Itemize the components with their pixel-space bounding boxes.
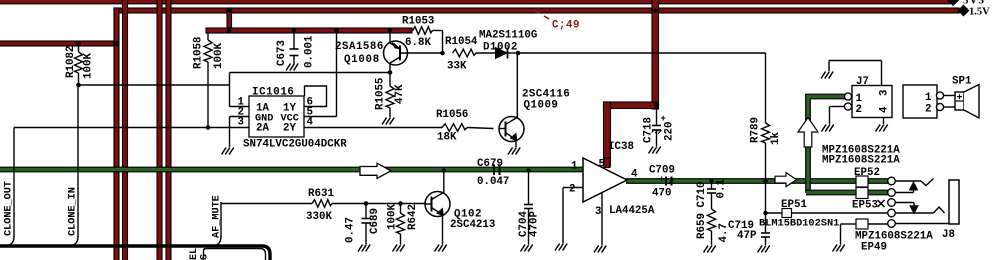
- net arrow 3V3: [947, 0, 959, 6]
- label IC1016 1Y: [283, 103, 296, 115]
- label IC1016 pin6: [307, 97, 313, 109]
- label R1055: [375, 78, 387, 110]
- svg-text:220: 220: [664, 122, 676, 141]
- label Q1008: [344, 54, 380, 66]
- pin SP1-2: [936, 103, 943, 110]
- svg-text:R1055: R1055: [375, 78, 387, 110]
- label R1082: [65, 46, 77, 78]
- svg-text:D1002: D1002: [483, 42, 518, 54]
- svg-text:1.5V: 1.5V: [969, 7, 990, 18]
- resistor R631: [312, 200, 425, 208]
- junction node Q1008 base/R1053/R1054: [440, 51, 445, 56]
- signal flow arrow on AF line: [360, 163, 391, 178]
- pin J8 c5: [888, 220, 896, 228]
- label C710 value 0.1: [716, 179, 728, 199]
- power rail elbow H5: [604, 102, 659, 109]
- wire IC1016 pin2 to ground: [230, 117, 250, 148]
- label MA2S1110G: [479, 30, 537, 42]
- wire J8 c4 switch: [895, 207, 944, 213]
- svg-text:R1082: R1082: [65, 46, 77, 78]
- label MPZ1608S221A (EP49): [855, 231, 933, 243]
- label AF_MUTE: [212, 195, 223, 238]
- svg-text:4: 4: [631, 169, 638, 181]
- power rail riser to 1.5V branch: [227, 8, 232, 32]
- label R789: [750, 117, 762, 143]
- svg-text:LA4425A: LA4425A: [609, 205, 655, 217]
- ground J7 pin3: [821, 72, 833, 79]
- signal flow arrow on AF out line: [775, 173, 797, 187]
- label C719: [728, 220, 754, 232]
- label C679: [477, 158, 503, 170]
- ground Q102 emitter: [435, 245, 447, 252]
- ground R642: [393, 245, 405, 252]
- wire J7 pin2 to ground: [830, 107, 845, 125]
- wire CLONE_IN vertical: [70, 85, 78, 246]
- svg-text:R1056: R1056: [436, 109, 468, 121]
- svg-text:4: 4: [307, 117, 314, 129]
- transistor Q102 2SC4213: [425, 172, 450, 245]
- wire CLONE_OUT / IC1016 pin3 line: [6, 128, 249, 246]
- resistor R789: [762, 123, 770, 213]
- resistor R1082: [75, 52, 83, 85]
- label C673: [276, 40, 288, 66]
- label C718: [643, 117, 655, 143]
- svg-text:SP1: SP1: [952, 76, 972, 88]
- label CLONE_IN: [68, 187, 79, 236]
- svg-text:S: S: [200, 254, 211, 260]
- svg-text:0.1: 0.1: [716, 179, 728, 199]
- svg-text:2A: 2A: [256, 123, 269, 135]
- svg-text:MPZ1608S221A: MPZ1608S221A: [822, 155, 900, 167]
- svg-text:CLONE_IN: CLONE_IN: [68, 187, 79, 236]
- label C709 plus: [659, 175, 664, 185]
- label IC1016 VCC: [281, 114, 299, 125]
- svg-text:EP53: EP53: [852, 200, 878, 212]
- label IC1016 2A: [256, 123, 269, 135]
- label BLM15BD102SN1: [759, 218, 839, 230]
- svg-text:C710: C710: [696, 182, 708, 208]
- ferrite bead EP52 (lower): [856, 188, 868, 199]
- label EP52: [854, 167, 880, 179]
- label R631 value 330K: [306, 211, 332, 223]
- pin J7-2: [844, 103, 851, 110]
- ground IC38 pin3: [594, 246, 606, 253]
- junction node R789/AF out: [763, 179, 768, 184]
- wire green vertical to J7 pin1: [808, 97, 845, 193]
- wire J8 c3 ring contact: [895, 203, 918, 214]
- speaker SP1 symbol: [955, 85, 979, 119]
- wire node-A to Q1008 collector line: [230, 72, 391, 74]
- ground C673: [286, 64, 298, 71]
- label 1.5V: [969, 7, 990, 18]
- label Q102: [454, 209, 482, 221]
- power rail 3V3 (top horizontal bus): [0, 0, 950, 4]
- label R1053 value 6.8K: [405, 37, 431, 49]
- bus AF/control (bottom thick wire): [0, 246, 270, 260]
- wire IC1016 pin5 to VCC rail: [304, 31, 337, 117]
- svg-text:2SC4213: 2SC4213: [450, 219, 495, 231]
- wire AF output line (green) from IC38 pin4: [626, 178, 888, 184]
- diode D1002 MA2S1110G: [496, 48, 519, 59]
- ground IC1016 pin2: [222, 148, 234, 155]
- wire EP49 to jack: [868, 223, 888, 225]
- junction node V5/rail-B: [653, 8, 658, 13]
- wire node-A horizontal (R1082 to IC1016 pin1 riser): [79, 84, 230, 86]
- pin J8 c1: [888, 177, 896, 185]
- wire AF_MUTE line: [213, 202, 312, 246]
- junction node D1002 cathode: [516, 51, 521, 56]
- annotation C;49 (dark red): [534, 10, 580, 32]
- resistor R1058: [204, 40, 212, 128]
- label MPZ1608S221A (1): [822, 145, 900, 157]
- svg-text:0.47: 0.47: [345, 217, 357, 243]
- label IC1016 GND: [255, 114, 273, 125]
- label IC38 pin3: [595, 206, 601, 218]
- label J7 pin3: [879, 90, 891, 96]
- svg-text:470: 470: [652, 188, 671, 200]
- svg-text:SN74LVC2GU04DCKR: SN74LVC2GU04DCKR: [243, 139, 347, 151]
- svg-text:BLM15BD102SN1: BLM15BD102SN1: [759, 218, 839, 230]
- svg-text:R789: R789: [750, 117, 762, 143]
- label R1054: [445, 36, 478, 48]
- label EP51: [781, 199, 807, 211]
- svg-text:EP49: EP49: [861, 242, 887, 254]
- svg-text:EL: EL: [189, 248, 200, 260]
- label IC1016: [252, 87, 294, 99]
- junction node rail-L/V1: [114, 41, 119, 46]
- label 2SC4213: [450, 219, 495, 231]
- wire J7 pin4 to ground: [883, 118, 885, 125]
- svg-text:CLONE_OUT: CLONE_OUT: [4, 181, 15, 236]
- label C719 value 47P: [737, 230, 757, 242]
- svg-text:1k: 1k: [770, 132, 782, 145]
- label IC38: [608, 141, 634, 153]
- label C709 value 470: [652, 188, 671, 200]
- junction node C704 on AF line: [526, 168, 531, 173]
- svg-text:3: 3: [238, 117, 244, 129]
- power rail branch C (feeds R1058 / C673 / IC1016 VCC / Q1008): [206, 28, 412, 33]
- label C704 value 470P: [529, 211, 541, 237]
- power rail vertical V4: [166, 0, 171, 260]
- pin J8 c4: [888, 209, 896, 217]
- label IC1016 pin5: [307, 107, 313, 119]
- wire IC1016 pin6 loop: [304, 86, 327, 107]
- svg-text:C;49: C;49: [552, 20, 580, 32]
- power rail vertical V5 (to IC38 pin5): [652, 0, 659, 109]
- junction node R1058/pin3 line: [206, 125, 211, 130]
- resistor R1054: [453, 49, 496, 57]
- capacitor C704: [524, 205, 533, 245]
- label EL (cut): [189, 248, 200, 260]
- label S (cut): [200, 254, 211, 260]
- label C673 value 0.001: [304, 35, 316, 68]
- ground C719: [758, 246, 770, 253]
- ferrite bead EP52 (upper): [856, 176, 868, 187]
- junction node R1082/rail: [76, 41, 81, 46]
- wire IC38 pin3 to ground: [601, 193, 603, 246]
- svg-text:R1058: R1058: [193, 37, 205, 69]
- power rail 1.5V (second horizontal bus): [114, 8, 959, 13]
- svg-text:IC1016: IC1016: [252, 87, 294, 99]
- svg-text:R631: R631: [308, 188, 334, 200]
- label IC1016 pin3: [238, 117, 244, 129]
- svg-text:100K: 100K: [83, 53, 95, 79]
- svg-text:MA2S1110G: MA2S1110G: [479, 30, 537, 42]
- power rail vertical V3: [157, 0, 162, 260]
- ferrite bead EP51: [782, 209, 792, 218]
- wire SP1 pin2: [944, 106, 955, 108]
- label R789 value 1k: [770, 132, 782, 145]
- label 3V3 (clipped): [963, 0, 985, 7]
- label IC38 pin4: [631, 169, 638, 181]
- ferrite bead EP49: [856, 219, 868, 229]
- pin J7-1: [844, 93, 851, 100]
- svg-text:EP52: EP52: [854, 167, 880, 179]
- capacitor C709 (series, polarized): [666, 177, 674, 186]
- label IC1016 pin4: [307, 117, 314, 129]
- wire J8 c1 switch: [895, 179, 933, 186]
- svg-text:4: 4: [879, 106, 891, 113]
- label SP1 pin2: [925, 104, 931, 116]
- wire mute line D1002 to R789: [518, 52, 766, 54]
- ground R659: [704, 246, 716, 253]
- svg-text:R659: R659: [696, 213, 708, 239]
- ground R1055: [382, 118, 394, 125]
- power rail vertical V1: [114, 8, 119, 260]
- svg-text:47P: 47P: [737, 230, 757, 242]
- ground J7 pin4: [876, 125, 888, 132]
- wire green lower branch to jack: [806, 190, 888, 196]
- svg-text:1: 1: [925, 92, 932, 104]
- label R1058: [193, 37, 205, 69]
- junction node EP51/C719: [763, 211, 768, 216]
- wire IC1016 pin1 riser: [230, 73, 250, 107]
- label IC38 pin1: [571, 161, 578, 173]
- svg-text:2: 2: [925, 104, 931, 116]
- transistor Q1008 2SA1586: [384, 31, 443, 73]
- svg-text:C679: C679: [477, 158, 503, 170]
- label C718 plus: [661, 114, 666, 124]
- capacitor C718 (polarized): [652, 126, 662, 147]
- connector J7 box: [852, 86, 892, 118]
- svg-text:C709: C709: [649, 165, 675, 177]
- junction node R642: [398, 201, 403, 206]
- label C689: [369, 208, 381, 234]
- label EP49: [861, 242, 887, 254]
- junction node Q1008 emitter/rail: [388, 28, 393, 33]
- label CLONE_OUT: [4, 181, 15, 236]
- label IC38 pin5: [599, 159, 605, 171]
- svg-text:100K: 100K: [213, 43, 225, 69]
- wire C718 lead: [656, 105, 658, 126]
- label J8: [942, 229, 955, 241]
- label R1056: [436, 109, 468, 121]
- label 2SC4116: [522, 89, 570, 101]
- wire AF signal line (green) into IC38 pin1: [0, 167, 583, 173]
- svg-text:3: 3: [879, 90, 891, 96]
- label LA4425A: [609, 205, 655, 217]
- net arrow 1.5V: [958, 5, 970, 17]
- junction node riser/rail-B: [227, 8, 232, 13]
- label IC38 pin2: [569, 184, 575, 196]
- ground J7 pin2: [822, 125, 834, 132]
- svg-text:IC38: IC38: [608, 141, 634, 153]
- resistor R659: [708, 209, 716, 245]
- svg-text:Q1009: Q1009: [524, 100, 559, 112]
- svg-text:J8: J8: [942, 229, 955, 241]
- svg-text:3: 3: [595, 206, 601, 218]
- svg-text:R1054: R1054: [445, 36, 478, 48]
- svg-text:C718: C718: [643, 117, 655, 143]
- svg-text:33K: 33K: [447, 61, 467, 73]
- wire IC1016 pin4 line: [304, 127, 442, 129]
- label R1054 value 33K: [447, 61, 467, 73]
- svg-text:100K: 100K: [387, 204, 399, 230]
- ground Q1009 emitter: [508, 148, 520, 155]
- signal flow arrow to J7: [798, 118, 818, 148]
- svg-text:C673: C673: [276, 40, 288, 66]
- svg-text:2: 2: [856, 104, 862, 116]
- wire EP51 line: [766, 212, 889, 214]
- label R659: [696, 213, 708, 239]
- ground C689: [358, 245, 370, 252]
- transistor Q1009 2SC4116: [499, 53, 524, 147]
- wire R1082 top lead from rail: [78, 44, 80, 52]
- capacitor C710: [707, 181, 716, 209]
- power rail pin5 stub over IC38: [604, 158, 610, 168]
- ground C718: [649, 147, 661, 154]
- junction node Q1008 collector / R1055: [388, 70, 393, 75]
- svg-text:R642: R642: [407, 204, 419, 230]
- label C710: [696, 182, 708, 208]
- svg-text:R1053: R1053: [402, 16, 434, 28]
- junction node R1082 bottom: [76, 83, 81, 88]
- wire IC38 pin2 to ground: [563, 188, 583, 244]
- label 2SA1586: [335, 41, 384, 53]
- pin J8 c3: [888, 199, 896, 207]
- power rail V6 into IC38 pin 5: [604, 102, 611, 166]
- label IC1016 pin2: [238, 107, 244, 119]
- svg-text:0.001: 0.001: [304, 35, 316, 68]
- junction node C718/rail: [654, 103, 659, 108]
- label R631: [308, 188, 334, 200]
- junction node C710 on AF out line: [709, 179, 714, 184]
- wire J8 c5 sleeve: [895, 223, 949, 225]
- wire EP49 riser: [841, 224, 857, 244]
- label IC1016 2Y: [283, 123, 296, 135]
- junction node Q102 collector on AF line: [442, 168, 447, 173]
- svg-text:47K: 47K: [394, 84, 406, 104]
- IC U IC1016 box: [249, 96, 304, 137]
- capacitor C673: [290, 49, 299, 64]
- ground EP49: [833, 245, 845, 252]
- label D1002: [483, 42, 518, 54]
- label EP53: [852, 200, 878, 212]
- op-amp IC38 LA4425A: [583, 158, 627, 202]
- label R642 value 100K: [387, 204, 399, 230]
- connector J8 body: [949, 180, 959, 224]
- resistor R1056: [442, 124, 494, 132]
- wire J8 c2 tip contact: [895, 182, 917, 193]
- label C689 value 0.47: [345, 217, 357, 243]
- svg-text:EP51: EP51: [781, 199, 807, 211]
- label R642: [407, 204, 419, 230]
- capacitor C679 (series on AF line): [494, 165, 500, 176]
- label J7: [856, 76, 869, 88]
- label SP1 pin1: [925, 92, 932, 104]
- wire R789 from mute line: [765, 53, 767, 123]
- label R1055 value 47K: [394, 84, 406, 104]
- label R659 value 4.7: [718, 223, 730, 242]
- pin J8 c2: [888, 189, 896, 197]
- wire C704 lead: [528, 171, 530, 205]
- ground IC38 pin2: [555, 244, 567, 251]
- capacitor C719: [761, 213, 770, 245]
- pin SP1-1: [936, 92, 943, 99]
- label IC1016 pin1: [238, 97, 245, 109]
- svg-text:330K: 330K: [306, 211, 332, 223]
- label R1056 value 18K: [437, 132, 457, 144]
- svg-text:AF_MUTE: AF_MUTE: [212, 195, 223, 238]
- svg-text:J7: J7: [856, 76, 869, 88]
- svg-text:2: 2: [569, 184, 575, 196]
- label MPZ1608S221A (2): [822, 155, 900, 167]
- junction node VCC riser/rail: [334, 28, 339, 33]
- no-connect X EP53: [878, 200, 885, 207]
- junction node riser/rail-C: [227, 28, 232, 33]
- capacitor C689: [362, 204, 371, 245]
- resistor R1055: [386, 73, 394, 118]
- power rail branch left (to R1082): [0, 41, 118, 46]
- ground C704: [521, 245, 533, 252]
- label J7 pin4: [879, 106, 891, 113]
- label Q1009: [524, 100, 559, 112]
- svg-text:2SA1586: 2SA1586: [335, 41, 384, 53]
- resistor R1053: [413, 27, 443, 53]
- wire SP1 pin1: [944, 95, 955, 97]
- resistor R642: [397, 204, 405, 245]
- svg-text:1: 1: [571, 161, 578, 173]
- label R1082 value 100K: [83, 53, 95, 79]
- label C704: [518, 211, 530, 237]
- wire R1058 top lead: [207, 33, 209, 40]
- power rail vertical V2: [123, 0, 128, 260]
- svg-text:C689: C689: [369, 208, 381, 234]
- wire J7 pin3 to ground: [829, 61, 882, 86]
- svg-text:5: 5: [599, 159, 605, 171]
- wire C673 from rail: [293, 31, 295, 50]
- svg-text:Q1008: Q1008: [344, 54, 380, 66]
- label C718 value 220: [664, 122, 676, 141]
- label IC1016 1A: [256, 103, 269, 115]
- svg-text:470P: 470P: [529, 211, 541, 237]
- label R1058 value 100K: [213, 43, 225, 69]
- label C679 value 0.047: [477, 176, 509, 188]
- speaker connector SP1 box: [903, 85, 937, 118]
- label J7 pin1: [856, 93, 863, 105]
- svg-text:2Y: 2Y: [283, 123, 296, 135]
- svg-text:18K: 18K: [437, 132, 457, 144]
- junction node C689: [364, 201, 369, 206]
- label C709: [649, 165, 675, 177]
- label SP1: [952, 76, 972, 88]
- label J7 pin2: [856, 104, 862, 116]
- svg-text:6.8K: 6.8K: [405, 37, 431, 49]
- junction node C673/rail: [292, 28, 297, 33]
- label SN74LVC2GU04DCKR: [243, 139, 347, 151]
- label R1053: [402, 16, 434, 28]
- svg-text:0.047: 0.047: [477, 176, 509, 188]
